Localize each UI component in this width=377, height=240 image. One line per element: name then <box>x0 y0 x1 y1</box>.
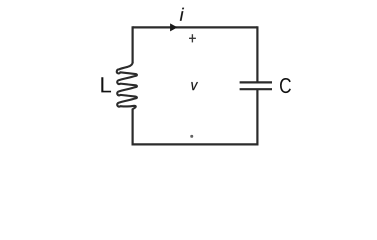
wire bottom node <box>133 143 258 145</box>
wire right lower <box>256 89 258 145</box>
capacitor C bottom plate <box>240 88 272 90</box>
polarity plus <box>189 34 196 42</box>
label C <box>280 78 291 93</box>
wire left upper <box>132 26 134 63</box>
wire top node <box>133 26 258 28</box>
polarity minus dot <box>190 135 193 138</box>
label v <box>191 82 198 90</box>
label L <box>101 77 111 92</box>
inductor L coil <box>117 62 137 109</box>
label i <box>180 8 184 21</box>
capacitor C top plate <box>240 81 272 83</box>
wire right upper <box>256 26 258 82</box>
wire left lower <box>132 109 134 146</box>
current arrowhead <box>170 23 177 31</box>
